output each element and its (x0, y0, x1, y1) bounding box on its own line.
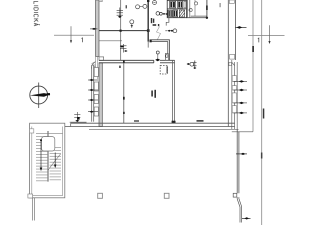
inner site line (252, 0, 254, 132)
pipe line y=40.8 (99, 40, 122, 42)
cluster upper right slit (184, 1, 186, 8)
staircase top-left tab (30, 129, 34, 133)
wc circles left of cluster (156, 12, 160, 16)
room divider line y=17.7 (187, 17, 207, 19)
left wall entry door swing (91, 62, 95, 69)
middle room riser pipe x=123.8 (123, 63, 125, 123)
symbol in corridor (x191) (187, 63, 190, 65)
right wall top tab (229, 0, 234, 3)
staircase inner lines (31, 127, 33, 196)
cluster lower fixture 2 (173, 10, 178, 17)
notch at stairs bottom-left (28, 194, 33, 198)
cluster lower fixture 3 (hatched) (179, 10, 184, 17)
staircase treads left flight (36, 137, 48, 181)
junction dot x=206.9 (206, 17, 208, 19)
section marker 2 label (258, 38, 259, 42)
boundary tick label (263, 109, 265, 119)
dimension tick above bottom wall (70, 121, 87, 123)
left valve 4 (88, 111, 98, 113)
staircase outer box (30, 123, 65, 198)
section marker 1 label (82, 38, 83, 42)
street name LIDICKA (rotated) (34, 2, 40, 26)
right valve 4 (234, 112, 248, 114)
left wall top tab (99, 0, 102, 2)
wall H1 (y=30.6) (99, 30, 149, 32)
wall V2 lower stub (147, 42, 149, 48)
bottom right valve (242, 217, 251, 219)
boundary tick 2 (261, 153, 263, 159)
bathroom wall nub (150, 40, 152, 42)
partition x=195 (194, 0, 196, 16)
tiny text above door (153, 24, 157, 26)
fixture cluster outer box (167, 0, 186, 17)
cluster row divider (167, 8, 186, 10)
middle wall bottom nub (172, 121, 176, 124)
middle wall vertical (x=172.4/174.6) (171, 60, 173, 123)
lower right wall (236, 129, 238, 193)
column marker square 2 (164, 193, 169, 198)
left valve 1 (88, 79, 98, 81)
dimension text on wall x=206.9 (206, 6, 208, 11)
dim text 375 (197, 120, 204, 121)
section marker 2 arrowhead (268, 41, 270, 44)
right risers (234, 62, 236, 129)
right valve 3 (234, 102, 248, 104)
bottom wall line 2 (32, 126, 235, 128)
right shaft box 4 (232, 106, 236, 113)
right wall valve y27.4 (235, 26, 246, 29)
wall shaft box 4 (94, 107, 98, 116)
door jamb lines (94, 56, 96, 71)
wall H2 double (y=60.3/62.8) left part (99, 59, 154, 61)
staircase treads right flight (50, 147, 61, 179)
site wall below stairs (32, 198, 34, 221)
circled fixture number top (153, 1, 157, 5)
bottom wall line 1 (71, 122, 235, 124)
left valve 2 (88, 89, 98, 91)
bottom wall left steps (70, 123, 72, 126)
left exterior wall upper (96, 0, 99, 56)
right wall mid tab (230, 54, 235, 59)
circle on partition pipes (189, 8, 192, 11)
cluster lower fixture 1 (168, 10, 172, 17)
corner fixture box (165, 54, 168, 61)
site boundary line (far right) (261, 0, 263, 225)
lower right wall jog notch (233, 193, 237, 197)
wall V2 (x=148.2) upper (147, 0, 149, 42)
wall H2 right part (160, 59, 175, 61)
wall x=206.9 (206, 0, 208, 18)
partition x=187.6 (187, 0, 189, 18)
partition x=189.8 (189, 0, 191, 18)
riser top jog (92, 65, 96, 67)
stair arrow right flight (54, 153, 56, 166)
wall shaft box 2 (94, 82, 98, 91)
riser pipe line x=120.7 (120, 0, 122, 60)
left valve 3 (88, 99, 98, 101)
wall shaft box 1 (94, 68, 98, 77)
right exterior wall outer line (234, 0, 236, 60)
section marker 1 arrowhead (70, 40, 72, 43)
wall shaft box 3 (94, 95, 98, 104)
bathroom washbasin (156, 51, 159, 54)
staircase landing line (36, 132, 63, 134)
junction dot on H1 (120, 30, 122, 32)
right valve 1 (234, 80, 248, 82)
north arrow (30, 83, 51, 109)
right wall inner ledge line (231, 60, 233, 129)
right exterior wall inner line (227, 0, 229, 127)
left exterior wall lower (99, 63, 102, 127)
staircase stringers (47, 131, 49, 182)
outside pipe bottom-left (74, 112, 80, 123)
stair well rounded rect (42, 137, 55, 151)
bathroom wall (y=39.8/41.6 corner down x=167.8/169.4) (150, 40, 170, 61)
rotated text label in middle room (151, 91, 153, 97)
right shaft box 3 (232, 93, 236, 103)
riser chamfer jog (232, 62, 235, 65)
section marker 2 (top right) (248, 25, 285, 41)
circled pair top of room (136, 5, 140, 9)
column marker square 1 (98, 193, 103, 198)
cluster upper fixture 2 (178, 1, 183, 8)
pipe from cluster to door wall (166, 18, 169, 26)
room divider line y=16.1 (191, 15, 207, 17)
V2 top nub (147, 0, 149, 2)
cluster upper fixture 1 (170, 1, 176, 8)
rotated text below wc (151, 18, 153, 23)
right shaft box 2 (232, 86, 236, 90)
stair up arrow left flight (40, 141, 42, 169)
section marker 1 (left) (54, 26, 94, 41)
lower right wall valve (236, 153, 247, 155)
door valve symbols (165, 30, 167, 32)
right shaft box 1 (232, 76, 236, 82)
floor drain box (160, 65, 167, 74)
junction nub H1/V2 (147, 29, 150, 32)
door swing zigzag (157, 27, 161, 40)
corner line y=131.8 (232, 131, 253, 133)
left risers outside wall (91, 65, 93, 122)
radiator symbol circle x133 (130, 20, 134, 24)
level mark on wall (90, 28, 98, 30)
right valve 2 (234, 89, 248, 91)
circle on partition x=195 (194, 2, 197, 5)
lower right wall segment 2 (237, 197, 241, 222)
bottom wall line 3 (89, 128, 239, 130)
riser cluster in top-left room (117, 8, 123, 19)
tiny dim text right of room (220, 3, 221, 7)
riser cluster below H1 (120, 44, 127, 53)
left wall door box (99, 57, 104, 60)
wc valve diamonds (162, 13, 165, 15)
right wall riser connection box (229, 62, 232, 65)
inner site line label (252, 46, 254, 52)
stair diagonal cut (48, 154, 61, 170)
